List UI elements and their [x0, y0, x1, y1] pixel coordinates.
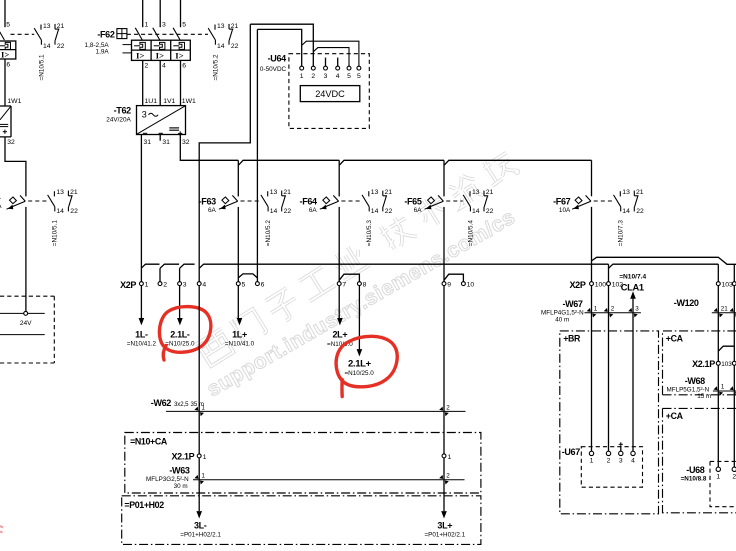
- svg-text:5: 5: [182, 21, 186, 28]
- svg-text:=N10/5.1: =N10/5.1: [52, 220, 59, 247]
- svg-text:1: 1: [201, 473, 205, 480]
- aux NO contact 13/14: [53, 191, 55, 196]
- svg-text:2: 2: [311, 73, 315, 80]
- svg-text:15 m: 15 m: [697, 393, 711, 400]
- svg-text:=N10+CA: =N10+CA: [130, 436, 168, 446]
- svg-text:2: 2: [446, 473, 450, 480]
- svg-text:1: 1: [590, 458, 594, 465]
- svg-text:14: 14: [56, 208, 64, 215]
- svg-text:13: 13: [622, 189, 630, 196]
- location box +CA lower (dash-dot): [663, 408, 736, 512]
- svg-text:-F67: -F67: [553, 197, 570, 207]
- svg-text:21: 21: [283, 189, 291, 196]
- aux NO contact 13/14: [619, 191, 621, 196]
- svg-text:31: 31: [144, 139, 152, 146]
- svg-text:6A: 6A: [414, 207, 423, 214]
- aux contacts of -F61 (=N10/5.1): [11, 33, 35, 35]
- svg-text:7: 7: [342, 282, 346, 289]
- svg-text:-U68: -U68: [686, 465, 704, 475]
- svg-text:X2.1P: X2.1P: [172, 452, 195, 462]
- svg-text:2: 2: [611, 305, 615, 312]
- svg-text:31: 31: [162, 139, 170, 146]
- svg-text:4: 4: [631, 458, 635, 465]
- svg-text:2.1L-: 2.1L-: [170, 330, 190, 340]
- location box +BR (dash-dot): [560, 331, 659, 514]
- svg-text:103: 103: [721, 361, 732, 368]
- wire: X2P:104 column down to U68:2: [733, 264, 735, 467]
- wire: bus corner down through -F67: [591, 160, 593, 196]
- svg-text:1: 1: [145, 282, 149, 289]
- svg-text:=N10/5.2: =N10/5.2: [212, 54, 219, 81]
- wire: branch -U64/1 to terminal 5b: [302, 41, 359, 66]
- svg-text:1: 1: [300, 73, 304, 80]
- svg-text:10: 10: [467, 282, 475, 289]
- svg-text:22: 22: [284, 208, 292, 215]
- svg-text:5: 5: [242, 282, 246, 289]
- svg-text:21: 21: [70, 189, 78, 196]
- svg-text:-F65: -F65: [404, 197, 421, 207]
- svg-text:13: 13: [270, 189, 278, 196]
- svg-text:1: 1: [721, 384, 725, 391]
- svg-text:22: 22: [231, 43, 239, 50]
- svg-text:3: 3: [635, 305, 639, 312]
- svg-text:21: 21: [721, 305, 729, 312]
- svg-text:22: 22: [486, 208, 494, 215]
- red scan marks at left edge: [0, 526, 3, 528]
- svg-text:=N10/41.2: =N10/41.2: [127, 341, 157, 348]
- mech link dashes -F62: [127, 33, 208, 35]
- red annotation circle around 2.1L+: [336, 336, 397, 396]
- svg-text:100: 100: [595, 282, 607, 289]
- svg-text:1W1: 1W1: [182, 98, 196, 105]
- wire: -T61/32 down and right to lower breaker: [5, 137, 26, 197]
- plus mark above U67:3: [619, 443, 623, 445]
- svg-text:CLA1: CLA1: [621, 283, 644, 293]
- aux NC contact 21/22: [483, 191, 485, 196]
- svg-text:I>: I>: [136, 50, 144, 60]
- aux NC contact 21/22: [382, 191, 384, 196]
- svg-text:0-50VDC: 0-50VDC: [260, 66, 287, 73]
- svg-text:3: 3: [324, 73, 328, 80]
- arrow 3L+ =P01+H02/2.1: [441, 511, 447, 518]
- svg-text:X2P: X2P: [570, 280, 586, 290]
- svg-text:6A: 6A: [309, 207, 318, 214]
- junction hop to -F63: [239, 160, 340, 165]
- wire: -F65 output down to X2P: [443, 207, 445, 286]
- mech link dashes -F67: [594, 200, 613, 202]
- breaker -F62 release box with I> elements: [132, 40, 191, 60]
- 24VDC module box inside -U64: [300, 86, 360, 102]
- wire: corner to -U64 terminal 2: [250, 24, 313, 66]
- svg-text:2: 2: [732, 474, 736, 481]
- svg-text:=N10/25.0: =N10/25.0: [344, 370, 374, 377]
- wire: CLA1 arrow down to U67:4: [632, 299, 634, 452]
- terminals -U68 1..2: [716, 467, 720, 471]
- svg-text:2L+: 2L+: [333, 330, 348, 340]
- svg-text:=P01+H02/2.1: =P01+H02/2.1: [424, 531, 465, 538]
- svg-text:13: 13: [371, 189, 379, 196]
- wire: T62/31 down to X2P:1: [140, 135, 142, 286]
- wire: incoming phase to left breaker -F61 (partial): [4, 0, 6, 27]
- svg-text:22: 22: [636, 208, 644, 215]
- svg-text:13: 13: [472, 189, 480, 196]
- svg-text:10A: 10A: [559, 207, 571, 214]
- svg-text:21: 21: [385, 189, 393, 196]
- aux NO contact 13/14: [40, 25, 42, 30]
- svg-text:1U1: 1U1: [145, 98, 158, 105]
- svg-text:2: 2: [446, 404, 450, 411]
- svg-text:6: 6: [182, 62, 186, 69]
- svg-text:1L-: 1L-: [135, 330, 148, 340]
- svg-text:2: 2: [145, 62, 149, 69]
- svg-text:=N10/5.4: =N10/5.4: [467, 220, 474, 247]
- terminals -U64 1..6: [300, 66, 304, 70]
- svg-text:3: 3: [619, 458, 623, 465]
- aux NC contact 21/22: [633, 191, 635, 196]
- svg-text:14: 14: [622, 208, 630, 215]
- svg-text:1V1: 1V1: [163, 98, 175, 105]
- bridge X2.1P 103-104: [718, 346, 734, 351]
- aux NO contact 13/14: [267, 191, 269, 196]
- wire/arrow X2P:1 to 1L- =N10/41.2: [140, 286, 142, 319]
- svg-text:40 m: 40 m: [555, 317, 569, 324]
- location box =N10+CA (dash-dot): [125, 433, 481, 494]
- svg-text:14: 14: [371, 208, 379, 215]
- svg-text:32: 32: [182, 139, 190, 146]
- svg-text:-F63: -F63: [199, 197, 216, 207]
- svg-text:14: 14: [270, 208, 278, 215]
- svg-text:=N10/5.3: =N10/5.3: [366, 220, 373, 247]
- wires -F62 to -T62: [142, 60, 144, 105]
- aux NC contact 21/22: [281, 191, 283, 196]
- svg-text:1: 1: [716, 474, 720, 481]
- svg-text:6A: 6A: [208, 207, 217, 214]
- stub -U64 terminal 3: [325, 58, 327, 67]
- svg-text:24V/20A: 24V/20A: [106, 116, 131, 123]
- wire: X2P:4 column down to 3L- arrow: [198, 286, 200, 511]
- svg-text:MFLP4G1,5²-N: MFLP4G1,5²-N: [541, 309, 584, 316]
- svg-text:9: 9: [447, 282, 451, 289]
- svg-text:1L+: 1L+: [232, 330, 247, 340]
- wire/arrow X2P:5 to 1L+ =N10/41.0: [237, 286, 239, 319]
- svg-text:=N10/41.0: =N10/41.0: [225, 341, 255, 348]
- wire/arrow X2P:8 to 2.1L+ =N10/25.0: [358, 286, 360, 350]
- wire: corner to -U64 terminal 1: [257, 29, 301, 66]
- svg-text:-W120: -W120: [674, 298, 699, 308]
- terminal 24V: [24, 311, 28, 315]
- svg-text:I>: I>: [175, 50, 183, 60]
- svg-text:-F64: -F64: [300, 197, 317, 207]
- svg-text:X2P: X2P: [120, 280, 136, 290]
- svg-text:21: 21: [57, 23, 65, 30]
- wire: -F63 output down to X2P:5: [237, 207, 239, 286]
- wire: U64/1 feed down to X2P:6: [256, 29, 258, 281]
- terminals -U67 1..4: [589, 451, 593, 455]
- wire: -F66 to 24V supply terminal: [25, 207, 27, 311]
- wire: branch -U64/2 to terminal 5a: [313, 48, 349, 66]
- wire: X2P:3 stub: [179, 268, 181, 285]
- aux NC contact 21/22: [228, 24, 230, 29]
- svg-text:21: 21: [486, 189, 494, 196]
- svg-text:1: 1: [145, 21, 149, 28]
- svg-text:30 m: 30 m: [174, 483, 188, 490]
- location box +CA upper (dash-dot): [663, 331, 736, 395]
- svg-text:13: 13: [43, 23, 51, 30]
- device -U67 dashed box: [581, 447, 642, 488]
- aux NO contact 13/14: [469, 191, 471, 196]
- bridge X2P 9-10: [444, 274, 463, 281]
- svg-text:4: 4: [202, 282, 206, 289]
- svg-text:1: 1: [448, 454, 452, 461]
- svg-text:-U64: -U64: [268, 53, 286, 63]
- mech link dashes -F63: [241, 200, 261, 202]
- wire/arrow X2P:7 to 2L+ =N10/8.0: [338, 286, 340, 319]
- wire: bus branch into -F64: [338, 160, 340, 196]
- mech link dashes -F65: [446, 200, 463, 202]
- stub U67:3: [620, 446, 622, 451]
- svg-text:4: 4: [162, 62, 166, 69]
- svg-text:=P01+H02/2.1: =P01+H02/2.1: [180, 531, 221, 538]
- aux NO contact 13/14: [368, 191, 370, 196]
- svg-text:6: 6: [6, 61, 10, 68]
- svg-text:=N10/7.3: =N10/7.3: [618, 220, 625, 247]
- stub -U64 terminal 4: [337, 58, 339, 67]
- svg-text:13: 13: [217, 23, 225, 30]
- svg-text:5: 5: [357, 73, 361, 80]
- manual operator of -F62: [117, 29, 127, 39]
- svg-text:6: 6: [261, 282, 265, 289]
- svg-text:1: 1: [594, 305, 598, 312]
- svg-text:-W62: -W62: [151, 398, 171, 408]
- wire: X2P:102 down to U67:2: [608, 264, 610, 451]
- svg-text:2: 2: [607, 458, 611, 465]
- svg-text:-T62: -T62: [114, 106, 131, 116]
- bridge X2P 7-8: [339, 274, 359, 281]
- junction hop to -F64: [340, 160, 444, 165]
- svg-text:21: 21: [636, 189, 644, 196]
- svg-text:3L+: 3L+: [437, 521, 452, 531]
- svg-text:=N10/5.2: =N10/5.2: [265, 220, 272, 247]
- svg-text:14: 14: [217, 43, 225, 50]
- wire: X2P:9 column down to 3L+ arrow: [443, 286, 445, 511]
- wire: -T62/32 L+ bus: [180, 135, 238, 161]
- svg-text:22: 22: [70, 208, 78, 215]
- svg-text:1: 1: [201, 404, 205, 411]
- wire: X2P:103 column down to U68:1: [717, 264, 719, 467]
- svg-text:14: 14: [472, 208, 480, 215]
- terminal rail X2P with hops: [141, 264, 159, 268]
- svg-text:-W68: -W68: [685, 376, 705, 386]
- svg-text:3x2,5: 3x2,5: [174, 401, 189, 408]
- wire: breaker -F61 to transformer -T61: [4, 59, 6, 106]
- svg-text:1W1: 1W1: [7, 98, 21, 105]
- 24V supply unit dashed box (partial): [0, 295, 54, 297]
- wire: U64 feed down-left corner to X2P:4: [199, 24, 250, 285]
- svg-text:22: 22: [385, 208, 393, 215]
- svg-text:24VDC: 24VDC: [315, 89, 345, 99]
- mech link dashes -F64: [341, 200, 361, 202]
- location box =P01+H02 (dash-dot): [122, 496, 481, 545]
- wire: -F64 output down to X2P: [338, 207, 340, 286]
- aux NC contact 21/22: [54, 24, 56, 29]
- svg-text:I>: I>: [1, 50, 9, 60]
- svg-text:-U67: -U67: [562, 447, 580, 457]
- terminal 31 stub (spare): [159, 135, 161, 141]
- svg-text:=N10/25.0: =N10/25.0: [165, 341, 195, 348]
- mech link dashes -F66 to aux: [28, 200, 47, 202]
- 3-phase wires into -F62: [142, 0, 144, 27]
- svg-text:=N10/7.4: =N10/7.4: [619, 273, 646, 280]
- wire stub X2P:2: [159, 268, 161, 281]
- svg-text:103: 103: [722, 282, 734, 289]
- svg-text:3: 3: [183, 282, 187, 289]
- svg-text:=N10/5.1: =N10/5.1: [38, 54, 45, 81]
- red annotation circle around 2.1L-: [159, 307, 210, 360]
- svg-text:X2.1P: X2.1P: [692, 359, 715, 369]
- svg-text:3: 3: [142, 109, 147, 119]
- device -U64 0-50VDC dashed enclosure: [289, 54, 369, 129]
- arrow 3L- =P01+H02/2.1: [196, 511, 202, 518]
- svg-text:4: 4: [336, 73, 340, 80]
- aux NO contact 13/14: [214, 25, 216, 30]
- svg-text:=P01+H02: =P01+H02: [124, 500, 164, 510]
- rail hop at X2P:100 up to CLA1 link: [592, 257, 736, 264]
- svg-text:MFLP3G2,5²-N: MFLP3G2,5²-N: [146, 476, 189, 483]
- svg-text:14: 14: [43, 43, 51, 50]
- svg-text:-F62: -F62: [97, 29, 114, 39]
- rail from X2P:102 to X2P:103: [609, 264, 719, 268]
- svg-text:5: 5: [347, 73, 351, 80]
- svg-text:I>: I>: [156, 50, 164, 60]
- svg-text:+BR: +BR: [563, 334, 581, 344]
- svg-text:3: 3: [162, 21, 166, 28]
- svg-text:1: 1: [203, 454, 207, 461]
- svg-text:1,9A: 1,9A: [96, 49, 110, 56]
- device -U68 =N10/8.8 dashed box: [710, 461, 736, 506]
- junction hop to -F65: [444, 160, 591, 165]
- aux NC contact 21/22: [67, 191, 69, 196]
- svg-text:-W63: -W63: [169, 466, 189, 476]
- svg-text:3L-: 3L-: [194, 521, 207, 531]
- svg-text:21: 21: [231, 23, 239, 30]
- svg-text:=N10/8.8: =N10/8.8: [681, 476, 707, 483]
- svg-text:2: 2: [163, 282, 167, 289]
- X2P terminal circles and numbers: [139, 282, 143, 286]
- wire/arrow X2P:3 to 2.1L- =N10/25.0: [179, 286, 181, 319]
- bridge X2P 5-6: [238, 274, 257, 278]
- svg-text:8: 8: [363, 282, 367, 289]
- svg-text:+CA: +CA: [666, 334, 684, 344]
- wire: bus branch into -F65: [443, 160, 445, 196]
- svg-text:22: 22: [57, 43, 65, 50]
- svg-text:24V: 24V: [20, 320, 32, 327]
- watermark: siemens forum gray outline text (rotated): [194, 149, 520, 368]
- wire: -F67 output down to X2P:100: [591, 207, 593, 451]
- svg-text:-W67: -W67: [562, 299, 582, 309]
- svg-text:13: 13: [56, 189, 64, 196]
- switch blades -F62: [135, 28, 142, 40]
- svg-text:5: 5: [6, 22, 10, 29]
- svg-text:+CA: +CA: [666, 411, 684, 421]
- svg-text:2.1L+: 2.1L+: [348, 359, 372, 370]
- wire: bus branch into -F63: [237, 160, 239, 196]
- svg-text:32: 32: [7, 139, 15, 146]
